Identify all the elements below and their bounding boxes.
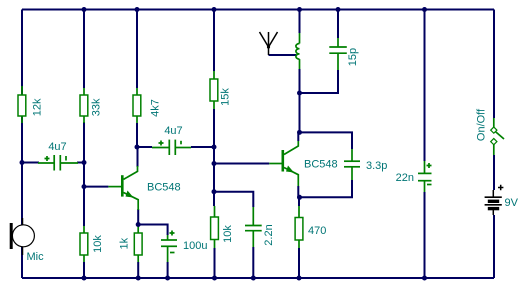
svg-text:15k: 15k — [220, 88, 232, 106]
svg-text:BC548: BC548 — [304, 158, 338, 170]
svg-text:4u7: 4u7 — [48, 141, 66, 153]
svg-text:15p: 15p — [347, 48, 359, 66]
svg-text:2.2n: 2.2n — [263, 224, 275, 245]
svg-text:BC548: BC548 — [147, 182, 181, 194]
svg-text:10k: 10k — [222, 225, 234, 243]
svg-text:3.3p: 3.3p — [366, 160, 387, 172]
svg-text:Mic: Mic — [27, 251, 45, 263]
svg-text:100u: 100u — [183, 240, 207, 252]
svg-text:4k7: 4k7 — [150, 99, 162, 117]
svg-text:1k: 1k — [118, 237, 130, 249]
svg-text:22n: 22n — [396, 172, 414, 184]
svg-text:10k: 10k — [92, 235, 104, 253]
svg-text:On/Off: On/Off — [476, 108, 488, 141]
svg-text:12k: 12k — [31, 98, 43, 116]
svg-text:33k: 33k — [90, 98, 102, 116]
svg-text:470: 470 — [308, 225, 326, 237]
svg-text:4u7: 4u7 — [164, 125, 182, 137]
svg-text:9V: 9V — [505, 197, 519, 209]
